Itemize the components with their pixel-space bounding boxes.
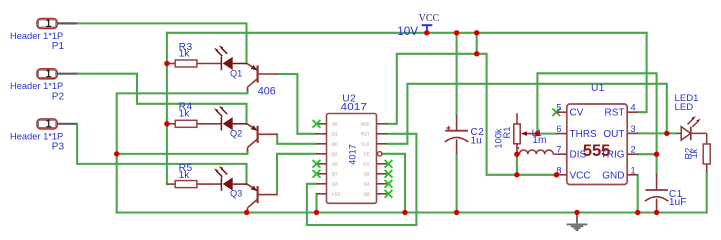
wire VCC drop and jog to 555 VCC [477, 33, 557, 175]
LED D3 (Q3 row) [214, 166, 247, 191]
wire R2 bottom to ground rail [706, 172, 708, 213]
svg-text:555: 555 [583, 142, 611, 160]
U2 pin labels right [360, 121, 370, 196]
svg-text:VCC: VCC [419, 13, 440, 24]
node R3 left [164, 61, 169, 66]
node rail Q3 [244, 210, 249, 215]
node OUT CLK LED [664, 131, 669, 136]
resistor R4 [167, 102, 222, 128]
power VCC [397, 13, 439, 38]
node wiper THRS [535, 131, 540, 136]
svg-text:1u: 1u [471, 136, 482, 147]
capacitor C2 [445, 115, 469, 153]
svg-text:Q1: Q1 [230, 69, 242, 79]
wire U2 VDD to VCC [387, 54, 477, 124]
svg-text:Header 1*1P: Header 1*1P [10, 131, 63, 141]
555 pin names [570, 108, 598, 182]
svg-text:P1: P1 [52, 41, 65, 52]
svg-text:VDD: VDD [360, 121, 369, 126]
LED D2 (Q2 row) [214, 106, 247, 131]
svg-text:10V: 10V [397, 24, 418, 38]
svg-text:5: 5 [556, 103, 561, 113]
nc pin Q5 [313, 120, 321, 128]
svg-text:406: 406 [258, 86, 276, 98]
wire U2 CE to ground [382, 154, 405, 213]
connector P3 [10, 119, 77, 152]
wire pot bottom node down [516, 154, 518, 175]
U2 pin labels left [332, 121, 341, 196]
connector P1 [10, 19, 77, 53]
svg-text:Q2: Q2 [332, 151, 338, 156]
wire VCC feed down to R3 R4 R5 [166, 33, 168, 184]
svg-text:Q7: Q7 [332, 171, 338, 176]
wire P3 to Q3 emitter [77, 124, 246, 184]
svg-text:1k: 1k [179, 108, 191, 119]
555 right pin stubs [627, 112, 638, 175]
svg-text:4017: 4017 [341, 102, 368, 113]
nc pin CV 555 [552, 108, 560, 116]
svg-text:RST: RST [361, 131, 370, 136]
node rail CE [402, 210, 407, 215]
svg-text:CV: CV [570, 108, 584, 119]
nc pin CO [385, 160, 393, 168]
svg-text:4017: 4017 [347, 144, 357, 165]
svg-text:6: 6 [556, 124, 561, 134]
svg-text:1k: 1k [179, 170, 191, 181]
svg-text:P3: P3 [52, 141, 65, 152]
node collector bus [114, 151, 119, 156]
node rail C1 [654, 210, 659, 215]
nc pin Q8 [385, 190, 393, 198]
wire 555 RST to VCC [638, 33, 647, 112]
svg-text:1uF: 1uF [669, 197, 687, 208]
nc pin Q4 [385, 180, 393, 188]
node pot bottom [514, 152, 519, 157]
wire P1 to Q1 emitter [77, 23, 247, 63]
diode LED1 [677, 116, 707, 144]
ground symbol [567, 213, 588, 231]
node rail 555 GND [635, 210, 640, 215]
wire Q1 collector down-left rail [117, 91, 248, 213]
nc pin Q9 [385, 170, 393, 178]
svg-text:CO: CO [363, 161, 370, 166]
svg-text:CLK: CLK [361, 141, 369, 146]
svg-text:1k: 1k [689, 148, 699, 158]
node VDD column top [474, 30, 479, 35]
svg-text:2: 2 [631, 145, 636, 155]
nc pin Q6 [313, 160, 321, 168]
svg-text:7: 7 [556, 145, 561, 155]
node 555 VCC pin [554, 172, 559, 177]
wire P2 to Q2 emitter [77, 74, 247, 124]
U2 right pin stubs [377, 124, 388, 194]
svg-text:OUT: OUT [603, 129, 624, 140]
svg-text:4: 4 [631, 103, 636, 113]
svg-text:Q2: Q2 [230, 129, 242, 139]
svg-text:VSS: VSS [332, 191, 341, 196]
svg-text:LED: LED [675, 102, 694, 113]
wire C2 top [456, 33, 458, 116]
resistor R2 [703, 144, 710, 172]
555 pin numbers [556, 103, 635, 176]
wire THRS stub [537, 133, 556, 135]
svg-text:CE: CE [364, 151, 370, 156]
wire Q2 collector [117, 151, 248, 154]
svg-text:RST: RST [605, 108, 625, 119]
wire VCC rail [167, 32, 647, 34]
node rail C2 [454, 210, 459, 215]
wire U2 CLK to 555 OUT [387, 84, 667, 144]
wire C1 top [656, 154, 658, 173]
IC U2 4017 decade counter box [327, 114, 377, 204]
wire C2 bottom [456, 154, 458, 213]
wire 555 GND to ground rail [637, 175, 639, 213]
svg-text:Q4: Q4 [364, 181, 370, 186]
svg-text:Q0: Q0 [332, 141, 338, 146]
svg-text:THRS: THRS [570, 129, 598, 140]
wire U2 VSS to ground [315, 194, 317, 213]
svg-text:Q6: Q6 [332, 161, 338, 166]
U2 left pin stubs [317, 124, 327, 194]
node TRIG [654, 152, 659, 157]
transistor Q3 [247, 184, 277, 212]
svg-text:100k: 100k [494, 128, 504, 149]
svg-text:1k: 1k [179, 49, 191, 60]
wire ground rail [117, 211, 707, 213]
IC U1 555 timer box [567, 104, 627, 185]
wire 555 TRIG [638, 153, 657, 155]
inductor L1 [517, 150, 556, 154]
capacitor C1 [645, 174, 669, 213]
inverted clock-enable circle pin CE [378, 152, 382, 156]
svg-text:Q8: Q8 [364, 191, 370, 196]
LED D1 (Q1 row) [214, 45, 247, 70]
node rail ground symbol [574, 210, 579, 215]
svg-text:Q9: Q9 [364, 171, 370, 176]
transistor Q1 [247, 64, 277, 92]
555 left pin stubs [556, 112, 567, 175]
wire 555 OUT to LED1 [638, 132, 677, 134]
svg-text:GND: GND [602, 170, 624, 181]
wire Q3 collector to ground rail [246, 211, 248, 213]
svg-text:P2: P2 [52, 91, 65, 102]
svg-text:Q3: Q3 [332, 181, 338, 186]
connector P2 [10, 69, 77, 103]
node 555 VCC feed left [514, 172, 519, 177]
svg-text:Header 1*1P: Header 1*1P [10, 31, 63, 41]
svg-text:3: 3 [631, 124, 636, 134]
wire U2 Q3 out to U2 RST [307, 134, 417, 225]
node R4 left [164, 121, 169, 126]
wire THRS TRIG link [537, 73, 656, 154]
transistor Q2 [247, 124, 277, 152]
X marks no-connect U2 [313, 108, 561, 197]
node C2 column top [454, 30, 459, 35]
svg-text:U1: U1 [591, 83, 605, 94]
svg-text:1: 1 [631, 165, 636, 175]
resistor R3 [167, 42, 222, 67]
svg-text:VCC: VCC [570, 170, 591, 181]
potentiometer R1 [514, 113, 538, 154]
wire Q1 base to U2 Q1 pin [277, 74, 317, 134]
node VCC symbol junction [424, 30, 429, 35]
resistor R5 [167, 163, 222, 188]
nc pin Q7 [313, 170, 321, 178]
node VDD jog [474, 51, 479, 56]
svg-text:Q1: Q1 [332, 131, 338, 136]
svg-text:Q3: Q3 [230, 189, 242, 199]
svg-text:1m: 1m [532, 135, 546, 146]
svg-text:Header 1*1P: Header 1*1P [10, 81, 63, 91]
wire Q2 base to U2 Q0 pin [277, 134, 317, 144]
svg-text:Q5: Q5 [332, 121, 338, 126]
wire Q3 base to U2 Q2 pin [277, 154, 317, 195]
node rail VSS [314, 210, 319, 215]
